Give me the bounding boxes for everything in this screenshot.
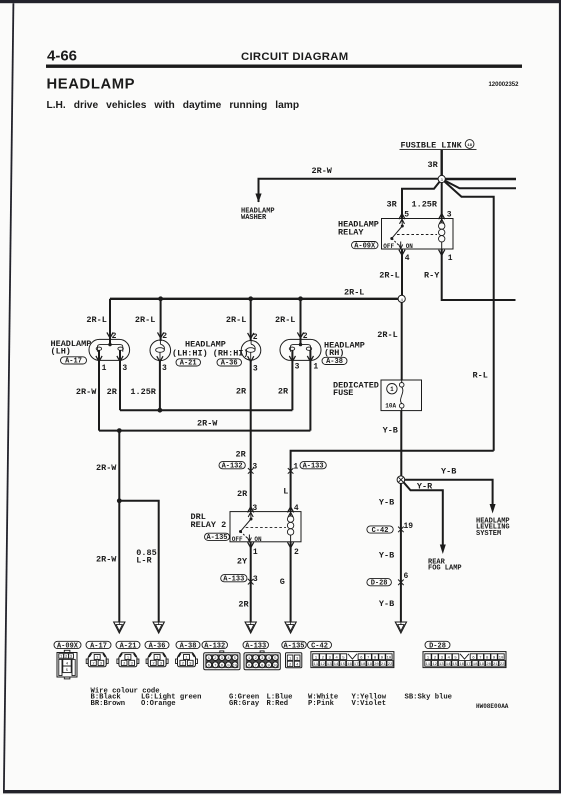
connector pinout A-132 [204, 651, 240, 670]
svg-text:A-38: A-38 [180, 642, 197, 650]
svg-text:4: 4 [405, 254, 410, 263]
wire 2R-W bus [99, 430, 310, 432]
wire L from R-L to DRL pin 4 [291, 451, 494, 512]
svg-text:A-36: A-36 [149, 642, 166, 650]
svg-text:L: L [283, 487, 288, 497]
svg-text:A-09X: A-09X [354, 242, 376, 250]
connector label D-28 [367, 579, 392, 588]
dedicated fuse box [381, 380, 422, 411]
svg-text:HW08E00AA: HW08E00AA [476, 703, 509, 710]
junction dot A-38 column [298, 296, 303, 301]
wire 0.85 L-R to ground [119, 501, 158, 622]
bottom connector label A-133 [243, 641, 269, 650]
svg-text:2R: 2R [237, 489, 248, 499]
wire drop to headlamp LH pin 2 [109, 299, 111, 345]
wire stub right upper [442, 178, 516, 180]
DRL relay switch [239, 512, 253, 542]
svg-text:L.H. drive vehicles with dayti: L.H. drive vehicles with daytime running… [47, 100, 300, 111]
svg-text:1: 1 [253, 548, 258, 557]
svg-text:3: 3 [253, 575, 258, 584]
svg-text:2R: 2R [238, 599, 249, 609]
connector label C-42 [367, 526, 393, 535]
connector label A-135 [205, 533, 230, 542]
relay name HEADLAMP RELAY [338, 220, 379, 238]
label HEADLAMP (RH) [324, 340, 365, 358]
label HEADLAMP (LH:HI) (RH:HI) [172, 339, 249, 358]
wire 1.25R bus [120, 409, 292, 411]
relay switch [390, 219, 404, 249]
splice node 3 [438, 175, 445, 183]
wire Y-B below fuse [400, 411, 402, 476]
svg-text:3R: 3R [387, 200, 398, 210]
svg-text:ON: ON [406, 243, 414, 250]
svg-text:RELAY: RELAY [338, 228, 364, 238]
terminal arrow pin2 A-36 [248, 333, 254, 339]
wire 2R-W to headlamp washer [255, 179, 441, 203]
connector pinout A-38 [176, 653, 198, 667]
svg-text:2R-L: 2R-L [275, 315, 295, 325]
svg-text:3: 3 [162, 364, 167, 373]
svg-text:A-133: A-133 [223, 576, 244, 584]
connector label A-132 [219, 462, 245, 471]
bottom connector label A-09X [54, 641, 81, 650]
wire drop to bulb A-36 pin 2 [250, 299, 252, 341]
svg-text:1: 1 [390, 386, 394, 393]
terminal arrow pin3 A-21 [157, 356, 163, 362]
svg-text:1: 1 [313, 363, 318, 372]
junction dot 2R-W [117, 428, 122, 433]
svg-text:A-21: A-21 [180, 360, 197, 368]
svg-text:A-17: A-17 [65, 358, 82, 366]
svg-text:C-42: C-42 [372, 527, 389, 535]
high beam bulb A-36 [241, 340, 261, 360]
terminal arrow pin1 LH [96, 356, 102, 362]
svg-text:2R-L: 2R-L [86, 315, 106, 325]
svg-text:2R-W: 2R-W [312, 166, 333, 176]
fuse number circled 1 [387, 384, 397, 394]
wire 2R-L to dedicated fuse [401, 302, 403, 380]
relay pin 4 terminal [399, 250, 405, 256]
wire RH pin 3 [291, 350, 293, 410]
connector C-42 pin 19 [398, 527, 404, 533]
junction dot A-21 column [158, 296, 163, 301]
svg-text:2R-L: 2R-L [377, 330, 397, 340]
relay name DRL RELAY 2 [191, 512, 227, 530]
svg-text:3: 3 [447, 211, 452, 220]
wire 3R from fusible link [441, 150, 443, 179]
svg-text:5: 5 [404, 211, 409, 220]
svg-text:BR:Brown: BR:Brown [91, 700, 126, 708]
DRL dashed link [246, 527, 286, 529]
svg-text:2: 2 [294, 548, 299, 557]
svg-text:ON: ON [254, 536, 262, 543]
bottom connector label D-28 [425, 641, 450, 650]
connector pinout A-09X [57, 650, 77, 679]
svg-text:6: 6 [404, 572, 409, 581]
svg-text:3: 3 [253, 364, 258, 373]
wire Y-B to headlamp leveling [405, 480, 496, 514]
svg-text:FUSE: FUSE [333, 388, 353, 398]
svg-text:10A: 10A [385, 403, 396, 410]
DRL relay 2 box [230, 512, 301, 542]
relay pin 3 terminal [439, 214, 445, 220]
wire 2R from A-36 to DRL relay [250, 360, 252, 511]
wire 2R-W to ground [118, 431, 120, 622]
svg-text:RELAY 2: RELAY 2 [191, 520, 227, 530]
wire 1.25R to relay pin 3 [441, 179, 443, 218]
svg-text:SB:Sky blue: SB:Sky blue [405, 694, 452, 702]
connector label A-36 [217, 359, 242, 368]
DRL pin 4 terminal [288, 507, 294, 513]
svg-text:120002352: 120002352 [488, 82, 519, 88]
svg-text:3R: 3R [428, 160, 439, 170]
svg-text:1: 1 [448, 254, 453, 263]
svg-text:1: 1 [293, 462, 298, 471]
wire A-21 pin 3 [159, 360, 161, 410]
svg-text:1: 1 [102, 364, 107, 373]
svg-text:A-17: A-17 [90, 642, 107, 650]
connector pinout A-135 [286, 653, 302, 668]
rear fog lamp destination [428, 559, 462, 573]
svg-text:A-135: A-135 [206, 534, 227, 542]
svg-text:A-21: A-21 [120, 642, 137, 650]
terminal arrow pin2 LH [107, 332, 113, 338]
connector label A-38 [322, 357, 347, 366]
wire drop to bulb A-21 pin 2 [160, 299, 162, 341]
svg-text:18: 18 [467, 144, 472, 148]
headlamp leveling system destination [476, 518, 510, 538]
svg-text:A-133: A-133 [303, 463, 324, 471]
svg-text:1.25R: 1.25R [130, 387, 156, 397]
relay pin 5 terminal [399, 214, 405, 220]
wire 2R-L from relay pin 4 [401, 249, 403, 295]
svg-text:OFF: OFF [383, 243, 394, 250]
DRL OFF ON labels [232, 536, 262, 543]
svg-text:A-09X: A-09X [57, 642, 79, 650]
headlamp LH bulb A-17 [89, 339, 130, 360]
svg-text:Y-B: Y-B [379, 497, 394, 507]
connector label A-133 lower [221, 575, 247, 584]
connector pinout D-28 [423, 652, 506, 668]
svg-text:L-R: L-R [136, 555, 152, 565]
svg-text:2R-W: 2R-W [96, 555, 117, 565]
headlamp RH bulb A-38 [280, 339, 321, 360]
svg-text:HEADLAMP: HEADLAMP [47, 77, 136, 93]
label HEADLAMP (LH) [51, 339, 92, 357]
relay coil [439, 219, 445, 250]
relay pin 1 terminal [439, 250, 445, 256]
svg-text:R-L: R-L [473, 370, 488, 380]
DRL pin 2 terminal [288, 542, 294, 548]
svg-text:FOG LAMP: FOG LAMP [428, 565, 462, 573]
wire colour code legend [91, 687, 452, 708]
headlamp washer destination [241, 208, 275, 223]
ground body DRL coil [285, 622, 296, 633]
page top black bar [0, 0, 561, 3]
header rule [46, 65, 522, 68]
connector A-132 pin 3 [248, 468, 254, 474]
svg-text:A-132: A-132 [204, 642, 225, 650]
svg-text:OFF: OFF [232, 536, 243, 543]
splice node Y-B [397, 476, 405, 484]
junction dot 1.25R [158, 408, 163, 413]
junction dot left ground split [117, 498, 122, 503]
svg-text:2R-L: 2R-L [344, 288, 364, 298]
svg-text:2R-W: 2R-W [76, 387, 97, 397]
connector pinout A-36 [146, 653, 168, 667]
page bottom black bar [3, 790, 561, 793]
splice node 4 [398, 295, 405, 303]
terminal arrow pin3 LH [117, 356, 123, 362]
DRL pin 1 terminal [248, 542, 254, 548]
svg-text:WASHER: WASHER [241, 214, 267, 222]
svg-text:(LH): (LH) [51, 347, 71, 357]
wire Y-R to rear fog lamp [404, 482, 446, 554]
svg-text:A-135: A-135 [283, 642, 304, 650]
svg-text:2R: 2R [278, 386, 289, 396]
svg-text:SYSTEM: SYSTEM [476, 530, 501, 538]
svg-text:2R-L: 2R-L [379, 271, 399, 281]
svg-text:3: 3 [252, 462, 257, 471]
terminal arrow pin3 RH [289, 356, 295, 362]
svg-text:2R: 2R [107, 387, 118, 397]
svg-text:C-42: C-42 [311, 642, 328, 650]
terminal arrow pin2 A-21 [158, 332, 164, 338]
relay dashed link [397, 234, 437, 236]
ground body second [153, 622, 164, 633]
svg-text:1.25R: 1.25R [412, 200, 438, 210]
relay connector label A-09X [352, 242, 379, 251]
bus 2R-L [110, 298, 398, 300]
svg-text:4-66: 4-66 [47, 48, 77, 65]
svg-text:(RH): (RH) [324, 348, 344, 358]
label 0.85 L-R [136, 548, 156, 566]
svg-text:19: 19 [404, 522, 414, 531]
svg-text:2: 2 [162, 332, 167, 341]
svg-text:2R: 2R [236, 386, 247, 396]
svg-text:Y-B: Y-B [383, 425, 398, 435]
wire R-L down right side [442, 179, 494, 451]
connector pinout A-17 [86, 653, 108, 667]
bottom connector label A-132 [202, 641, 228, 650]
wire RH pin 1 [309, 350, 311, 430]
terminal arrow pin1 RH [307, 356, 313, 362]
DRL coil [287, 512, 293, 542]
svg-text:CIRCUIT DIAGRAM: CIRCUIT DIAGRAM [241, 51, 348, 63]
svg-text:R-Y: R-Y [424, 271, 440, 281]
svg-text:2R-W: 2R-W [96, 463, 117, 473]
wire R-Y from relay pin 1 [442, 249, 516, 300]
bottom connector label C-42 [308, 641, 332, 650]
svg-text:2Y: 2Y [237, 556, 248, 566]
page left border (skewed) [3, 3, 14, 790]
connector label A-17 [61, 357, 87, 366]
svg-text:G: G [280, 577, 285, 587]
terminal arrow pin3 A-36 [248, 356, 254, 362]
DRL pin 3 terminal [248, 507, 254, 513]
high beam bulb A-21 [150, 340, 171, 361]
connector pinout A-133 [244, 651, 280, 670]
svg-text:2R: 2R [236, 449, 247, 459]
bottom connector label A-135 [282, 641, 307, 650]
junction dot A-36 column [248, 296, 253, 301]
connector pinout C-42 [311, 652, 394, 668]
connector label A-133 [300, 462, 326, 471]
connector pinout A-21 [117, 653, 139, 667]
svg-text:D-28: D-28 [429, 642, 446, 650]
fuse element [399, 380, 404, 411]
wire 2Y to ground [250, 542, 252, 622]
connector label A-21 [176, 359, 201, 368]
ground body right [395, 622, 406, 633]
svg-text:A-38: A-38 [326, 358, 343, 366]
svg-text:A-36: A-36 [221, 360, 238, 368]
wire stub right lower [442, 179, 516, 188]
bottom connector label A-17 [86, 641, 111, 650]
bottom connector label A-21 [116, 641, 140, 650]
wire Y-B to ground via C-42 D-28 [400, 484, 402, 623]
relay OFF ON labels [383, 243, 413, 250]
label DEDICATED FUSE [333, 381, 379, 399]
svg-text:2R-L: 2R-L [135, 315, 155, 325]
svg-text:A-133: A-133 [245, 642, 266, 650]
svg-text:P:Pink: P:Pink [308, 700, 335, 708]
svg-text:Y-B: Y-B [379, 599, 394, 609]
svg-text:O:Orange: O:Orange [141, 700, 176, 708]
svg-text:D-28: D-28 [371, 580, 388, 588]
svg-text:Y-B: Y-B [379, 550, 394, 560]
svg-text:3: 3 [295, 363, 300, 372]
bottom connector label A-36 [145, 641, 169, 650]
svg-text:A-132: A-132 [222, 463, 243, 471]
svg-text:(LH:HI) (RH:HI): (LH:HI) (RH:HI) [172, 348, 249, 358]
headlamp relay A-09X box [382, 219, 454, 250]
wire LH pin 1 [98, 350, 100, 430]
wire 3R to relay pin 5 [402, 179, 442, 218]
wire drop to headlamp RH pin 2 [300, 299, 302, 345]
ground body DRL switch [245, 622, 256, 633]
connector A-133 pin 3 [248, 579, 254, 585]
svg-text:Y-R: Y-R [417, 482, 433, 492]
connector A-133 pin 1 [288, 468, 294, 474]
svg-text:V:Violet: V:Violet [352, 700, 387, 708]
svg-text:Y-B: Y-B [441, 466, 456, 476]
svg-text:2R-L: 2R-L [226, 315, 246, 325]
ground body left [114, 622, 125, 633]
svg-text:3: 3 [122, 364, 127, 373]
svg-text:R:Red: R:Red [267, 700, 289, 708]
terminal arrow pin2 RH [297, 332, 303, 338]
svg-text:2R-W: 2R-W [197, 419, 218, 429]
fusible link 18 [400, 140, 477, 151]
connector D-28 pin 6 [398, 580, 404, 586]
bottom connector label A-38 [176, 641, 200, 650]
wire LH pin 3 [119, 350, 121, 410]
page right border [559, 0, 561, 793]
wire G to ground [290, 542, 292, 622]
svg-text:GR:Gray: GR:Gray [229, 700, 260, 708]
